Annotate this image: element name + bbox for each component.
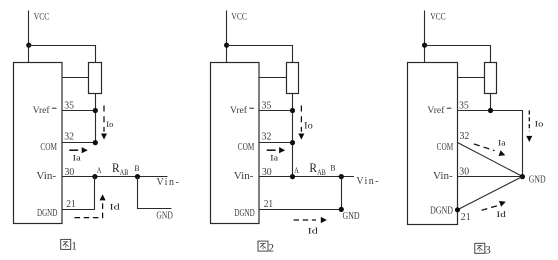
- current Io dashed line (fig1): [103, 106, 105, 132]
- superscript minus of Vref (fig1): [52, 107, 57, 109]
- IC U1 body (fig1): [14, 63, 63, 224]
- current Io dashed line (fig3): [528, 110, 530, 131]
- svg-text:32: 32: [262, 132, 272, 143]
- svg-text:DGND: DGND: [234, 208, 254, 219]
- svg-text:Ia: Ia: [498, 138, 506, 148]
- resistor R body (fig2): [287, 63, 299, 94]
- current Id dashed diagonal (fig3): [482, 205, 499, 210]
- svg-text:GND: GND: [529, 174, 546, 185]
- current Ia arrowhead (fig3): [499, 150, 506, 156]
- svg-text:B: B: [135, 164, 140, 173]
- current Id arrowhead (fig3): [499, 201, 506, 207]
- svg-text:Io: Io: [535, 119, 544, 129]
- current Ia dash (fig2): [267, 149, 276, 151]
- svg-text:21: 21: [264, 199, 273, 210]
- svg-text:35: 35: [459, 100, 469, 111]
- junction dot GND node (fig2): [339, 207, 344, 212]
- IC U3 body (fig3): [408, 63, 458, 225]
- svg-text:DGND: DGND: [430, 206, 453, 217]
- svg-text:VCC: VCC: [34, 13, 50, 23]
- svg-text:21: 21: [461, 212, 471, 223]
- current Io dashed line (fig2): [300, 106, 302, 132]
- svg-text:32: 32: [64, 132, 74, 143]
- current Id arrowhead (fig1): [100, 194, 106, 200]
- svg-text:B: B: [331, 164, 336, 173]
- current Ia dash (fig1): [69, 149, 78, 151]
- caption glyph tu (fig3): [475, 243, 485, 253]
- junction dot VCC node (fig1): [26, 43, 31, 48]
- wire VCC supply lead (fig2): [226, 11, 228, 63]
- wire pin 30 to GND node (fig3): [458, 176, 523, 178]
- svg-text:Io: Io: [106, 119, 113, 129]
- svg-text:21: 21: [66, 199, 75, 210]
- current Io arrowhead (fig3): [526, 136, 532, 142]
- svg-text:32: 32: [460, 131, 470, 142]
- wire pin 32 to rail (fig1): [62, 142, 95, 144]
- svg-text:Io: Io: [304, 121, 313, 131]
- IC U2 body (fig2): [211, 63, 260, 224]
- current Ia dashed diagonal (fig3): [474, 144, 495, 151]
- wire pin 35 to GND corner (fig3): [458, 111, 523, 177]
- wire IC top to resistor left (fig2): [259, 77, 287, 79]
- svg-text:1: 1: [71, 241, 77, 253]
- wire pin 21 to GND node (fig2): [259, 209, 342, 211]
- junction dot pin 32 node (fig2): [290, 140, 295, 145]
- current Io arrowhead (fig2): [298, 134, 304, 140]
- junction dot pin 32 node (fig1): [93, 140, 98, 145]
- junction dot node A (fig2): [290, 174, 295, 179]
- svg-text:GND: GND: [343, 211, 360, 222]
- caption glyph tu (fig2): [258, 241, 268, 251]
- svg-text:Vref: Vref: [230, 105, 248, 116]
- resistor R body (fig1): [89, 63, 102, 94]
- junction dot pin 35 node (fig2): [290, 108, 295, 113]
- wire VCC rail to resistor R (fig2): [227, 46, 293, 63]
- wire VCC rail to resistor R (fig1): [29, 46, 96, 63]
- svg-text:Ia: Ia: [270, 153, 278, 163]
- svg-text:COM: COM: [437, 142, 454, 153]
- svg-text:Vref: Vref: [33, 105, 51, 116]
- svg-text:A: A: [97, 166, 102, 175]
- svg-text:Id: Id: [308, 225, 319, 235]
- svg-text:Vin-: Vin-: [356, 176, 380, 187]
- current Id arrowhead (fig2): [321, 217, 327, 223]
- superscript minus of Vref (fig2): [249, 107, 254, 109]
- current Ia arrowhead (fig2): [279, 147, 285, 153]
- wire VCC rail to resistor R (fig3): [425, 46, 491, 63]
- svg-text:AB: AB: [317, 167, 326, 177]
- wire node A down to pin 21 (fig1): [94, 177, 96, 210]
- svg-text:COM: COM: [238, 142, 255, 153]
- svg-text:R: R: [112, 160, 120, 175]
- svg-text:Id: Id: [110, 202, 121, 212]
- wire pin 30 through A and B (fig1): [62, 176, 167, 178]
- resistor R body (fig3): [485, 63, 497, 94]
- wire pin 32 diagonal to GND node (fig3): [458, 143, 523, 177]
- current Id dashed line (fig2): [294, 219, 317, 221]
- current Id dashed path (fig1): [75, 202, 103, 218]
- wire pin 21 diagonal to GND node (fig3): [458, 177, 523, 210]
- caption glyph tu (fig1): [61, 239, 71, 249]
- wire node B down to GND node (fig2): [341, 177, 343, 210]
- junction dot pin 21 node (fig3): [455, 207, 460, 212]
- svg-text:Vin-: Vin-: [234, 171, 254, 182]
- svg-text:Vin-: Vin-: [36, 171, 56, 182]
- wire node B to GND terminal (fig1): [138, 177, 172, 209]
- wire IC top to resistor left (fig1): [62, 77, 88, 79]
- svg-text:VCC: VCC: [231, 13, 247, 23]
- svg-text:30: 30: [459, 167, 469, 178]
- wire pin 32 to rail (fig2): [259, 142, 293, 144]
- wire pin 35 to rail (fig1): [62, 110, 95, 112]
- junction dot GND node (fig3): [520, 174, 525, 179]
- wire VCC supply lead (fig1): [28, 11, 30, 63]
- svg-text:AB: AB: [120, 167, 129, 177]
- wire pin 30 through A and B (fig2): [259, 176, 354, 178]
- junction dot VCC node (fig2): [224, 43, 229, 48]
- svg-text:A: A: [294, 166, 299, 175]
- svg-text:3: 3: [485, 244, 491, 256]
- wire pin 35 to rail (fig2): [259, 110, 293, 112]
- svg-text:Vin-: Vin-: [433, 171, 453, 182]
- wire VCC supply lead (fig3): [424, 11, 426, 63]
- wire resistor bottom rail (fig1): [95, 94, 97, 143]
- wire IC top to resistor left (fig3): [458, 77, 485, 79]
- svg-text:Id: Id: [497, 209, 507, 219]
- wire pin 21 (fig1): [62, 209, 95, 211]
- junction dot pin 35 node (fig1): [93, 108, 98, 113]
- svg-text:COM: COM: [40, 142, 57, 153]
- svg-text:Vref: Vref: [427, 105, 445, 116]
- junction dot node B (fig1): [135, 174, 140, 179]
- superscript minus of Vref (fig3): [447, 107, 452, 109]
- svg-text:2: 2: [268, 242, 274, 254]
- wire resistor bottom rail to node A (fig2): [292, 94, 294, 177]
- junction dot node A (fig1): [92, 174, 97, 179]
- svg-text:35: 35: [64, 100, 74, 111]
- junction dot VCC node (fig3): [422, 43, 427, 48]
- current Ia arrowhead (fig1): [82, 147, 88, 153]
- svg-text:VCC: VCC: [430, 13, 446, 23]
- svg-text:R: R: [309, 160, 317, 175]
- svg-text:Ia: Ia: [73, 153, 81, 163]
- current Io arrowhead (fig1): [101, 134, 107, 140]
- junction dot node B (fig2): [339, 174, 344, 179]
- wire resistor bottom rail (fig3): [490, 94, 492, 111]
- junction dot pin 35 node (fig3): [488, 108, 493, 113]
- svg-text:DGND: DGND: [37, 208, 57, 219]
- svg-text:35: 35: [262, 100, 272, 111]
- svg-text:GND: GND: [156, 211, 172, 222]
- svg-text:Vin-: Vin-: [157, 177, 181, 188]
